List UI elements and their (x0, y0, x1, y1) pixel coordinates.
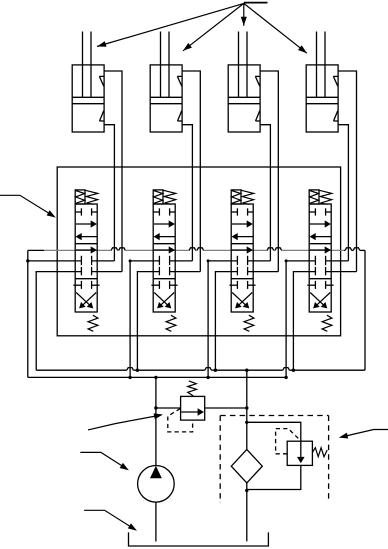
wire: open-center line through all valves (gray) (28, 249, 44, 251)
wire cylinder 2 rod-side port to valve 2 (182, 71, 200, 272)
wire: filter to tank (246, 483, 248, 541)
callout arrow to tank (84, 510, 134, 529)
cylinder CYL2 (150, 32, 182, 133)
junction dot: relief tee on pump riser (154, 406, 157, 409)
tank T1 (129, 532, 269, 546)
junction dot node (129, 259, 132, 262)
wire cylinder 2 cap-side port to valve 2 (182, 125, 192, 261)
wire valve V3 right ports to cylinder 3 (248, 260, 271, 262)
wire cylinder 3 cap-side port to valve 3 (260, 125, 270, 261)
junction dot node (26, 259, 29, 262)
wire valve V4 port B to return bus (293, 272, 315, 371)
wire: return bus B1 (36, 369, 127, 371)
wire valve V4 right ports to cylinder 4 (326, 260, 349, 262)
callout arrow to valve block (0, 195, 53, 215)
wire: riser to check valve inlet (247, 422, 301, 441)
wire cylinder 3 rod-side port to valve 3 (260, 71, 278, 272)
callout arrow to cylinder 2 (183, 3, 244, 50)
wire valve V3 port B to return bus (215, 272, 237, 371)
junction dot node (245, 489, 248, 492)
junction dot node (245, 406, 248, 409)
wire: pump suction to tank (155, 502, 157, 541)
directional control valve V4 (307, 190, 333, 331)
directional control valve V1 (73, 190, 99, 331)
cylinder CYL4 (306, 32, 338, 133)
wire: open-center line right end down to return bus (364, 250, 366, 370)
relief valve RV1 (181, 396, 205, 420)
callout arrow to relief valve (88, 416, 158, 430)
hydraulic pump P1 (138, 466, 175, 503)
wire: open-center line left end down to pressure bus (27, 250, 29, 377)
junction dot node (207, 259, 210, 262)
back-pressure valve CV1 (287, 441, 312, 465)
dashed enclosure (return unit) (219, 416, 221, 504)
cylinder CYL1 (72, 32, 104, 133)
wire cylinder 4 rod-side port to valve 4 (338, 71, 356, 272)
wire cylinder 4 cap-side port to valve 4 (338, 125, 348, 261)
junction dot node (285, 259, 288, 262)
wire valve V2 port B to return bus (137, 272, 159, 371)
wire: relief valve outlet to return riser (205, 407, 247, 409)
back-pressure valve spring (312, 448, 327, 457)
filter F1 (231, 449, 262, 483)
junction dot node (245, 421, 248, 424)
wire: pump riser to relief valve inlet (156, 407, 181, 409)
wire: return riser from return bus (246, 370, 248, 449)
valve block enclosure box (57, 167, 340, 336)
directional control valve V3 (229, 190, 255, 331)
callout arrow to cylinder 3 (243, 3, 245, 25)
wire: pump riser to pressure bus (155, 377, 157, 466)
wire valve V2 right ports to cylinder 2 (170, 260, 193, 262)
callout arrow to pump (80, 452, 126, 468)
back-pressure valve pilot line (dashed) (276, 429, 300, 454)
callout arrow to cylinder 4 (244, 3, 307, 53)
wire valve V3 port A to pressure bus (208, 261, 237, 378)
wire valve V1 port A to pressure bus (28, 260, 82, 262)
wire cylinder 1 rod-side port to valve 1 (104, 71, 122, 272)
callout arrow to return unit (344, 430, 388, 437)
relief valve pilot line (dashed) (168, 409, 193, 432)
junction dots on return bus (136, 369, 139, 372)
cylinder CYL3 (228, 32, 260, 133)
callout leader line (top) (244, 2, 268, 4)
wire valve V2 port A to pressure bus (130, 261, 159, 378)
wire: check valve outlet to tank line (247, 465, 301, 489)
directional control valve V2 (151, 190, 177, 331)
junction dots on pressure bus (128, 376, 131, 379)
wire cylinder 1 cap-side port to valve 1 (104, 125, 114, 261)
callout arrow to cylinder 1 (97, 3, 244, 46)
relief valve spring (188, 381, 197, 396)
wire valve V1 port B to return bus (36, 272, 81, 371)
wire valve V1 right ports to cylinder 1 (92, 260, 115, 262)
wire valve V4 port A to pressure bus (286, 261, 315, 378)
wire: pressure bus B2 from pump (28, 376, 286, 378)
